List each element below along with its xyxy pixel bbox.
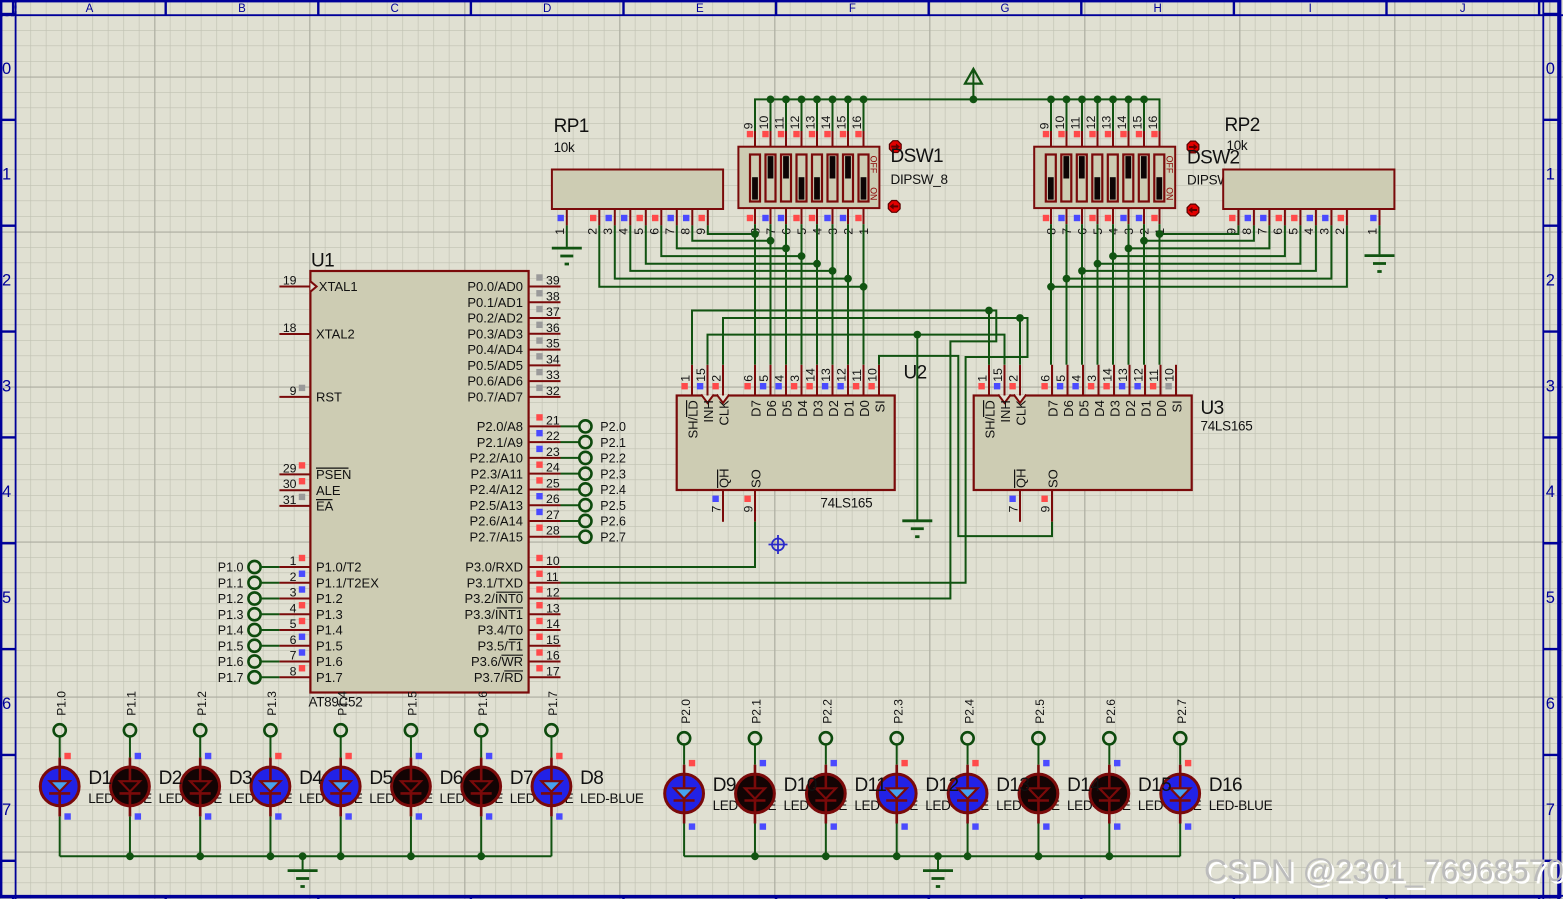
DSW2 pin 16 (top)	[1146, 116, 1160, 147]
U2 pin 5 (D6)	[757, 365, 779, 417]
svg-text:SI: SI	[1169, 400, 1184, 412]
svg-text:39: 39	[546, 274, 560, 288]
wire DSW1 pin 7 to U2 D6	[770, 224, 772, 365]
svg-text:17: 17	[546, 664, 560, 678]
svg-text:SH/LD: SH/LD	[982, 400, 997, 438]
node P1.4 terminal (U1 left)	[218, 624, 261, 638]
wire DSW2 pin 8 to U3 D7	[1050, 224, 1052, 365]
node P2.4 terminal (U1 right)	[579, 483, 626, 497]
wire DSW1 pin 1 to U2 D0	[863, 224, 865, 365]
U1 pin 26 (P2.5/A13)	[470, 492, 561, 513]
svg-text:16: 16	[546, 649, 560, 663]
wire CLK branch to U3 pin 2	[1019, 318, 1021, 365]
svg-text:4: 4	[1546, 483, 1555, 501]
node P1.1 terminal (LED row)	[124, 691, 139, 737]
U1 pin 6 (P1.5)	[279, 633, 342, 654]
U1 pin 19 (XTAL1)	[279, 274, 357, 295]
svg-text:D6: D6	[764, 400, 779, 417]
svg-text:P1.1/T2EX: P1.1/T2EX	[316, 575, 379, 590]
DSW1 pin 9 (top)	[741, 122, 755, 146]
LED D9 (on)	[665, 760, 704, 830]
node P2.2 terminal (U1 right)	[579, 452, 626, 466]
svg-text:U3: U3	[1201, 398, 1224, 419]
svg-text:P2.2: P2.2	[821, 699, 835, 724]
wire net RXD: U2 SO to U1 P3.0	[561, 522, 756, 567]
wire net U3 SO to U2 SI	[879, 356, 1052, 536]
DSW1 pin 12 (top)	[788, 116, 802, 147]
svg-text:6: 6	[1546, 695, 1555, 713]
wire U1 pin 24 to P2.3 terminal	[561, 473, 580, 475]
RP1 pin 1 (common)	[553, 209, 567, 235]
svg-text:35: 35	[546, 337, 560, 351]
svg-text:11: 11	[1147, 369, 1161, 382]
U2 pin 11 (D0)	[850, 365, 872, 417]
U1 pin 24 (P2.3/A11)	[470, 461, 560, 482]
DSW2 pin 7 (bottom)	[1058, 208, 1074, 235]
svg-text:7: 7	[1255, 228, 1269, 235]
svg-text:15: 15	[1130, 116, 1144, 130]
svg-text:11: 11	[546, 570, 559, 584]
svg-text:P2.3: P2.3	[891, 699, 905, 724]
wire U1 pin 26 to P2.5 terminal	[561, 504, 580, 506]
wire LED D5 to ground rail	[340, 816, 342, 856]
U1 pin 18 (XTAL2)	[279, 321, 354, 342]
svg-text:LED-BLUE: LED-BLUE	[580, 791, 644, 806]
wire RP1 pin 7 to DSW1 pin 6 column	[677, 225, 790, 252]
LED D3 (off)	[181, 753, 220, 820]
svg-text:E: E	[696, 3, 704, 15]
svg-text:P3.4/T0: P3.4/T0	[477, 623, 523, 638]
svg-text:P1.2: P1.2	[218, 592, 244, 606]
wire U1 pin 21 to P2.0 terminal	[561, 425, 580, 427]
node P2.2 terminal (LED row)	[820, 699, 835, 745]
svg-text:1: 1	[290, 554, 297, 568]
svg-text:D7: D7	[510, 768, 533, 789]
svg-text:ON: ON	[1164, 187, 1174, 200]
U2 pin 12 (D1)	[834, 365, 856, 417]
wire U1 pin 28 to P2.7 terminal	[561, 536, 580, 538]
svg-text:P1.7: P1.7	[546, 691, 560, 716]
svg-text:OFF: OFF	[869, 156, 879, 174]
wire P1.4 terminal to LED D5	[340, 736, 342, 758]
wire DSW1 pin 5 to U2 D4	[801, 224, 803, 365]
svg-text:6: 6	[1038, 375, 1052, 382]
wire RP1 pin 8 to DSW1 pin 7 column	[692, 225, 774, 244]
wire P1.2 terminal to U1 pin 3	[260, 598, 279, 600]
DSW2 pin 6 (bottom)	[1074, 208, 1090, 235]
svg-text:F: F	[849, 3, 856, 15]
wire LED D15 to ground rail	[1108, 824, 1110, 857]
svg-text:74LS165: 74LS165	[1201, 419, 1253, 434]
U3 clock notch	[998, 395, 1011, 404]
U1 pin 13 (P3.3/INT1)	[464, 601, 560, 622]
svg-text:P1.7: P1.7	[218, 671, 244, 685]
U3 pin 12 (D1)	[1131, 365, 1153, 417]
svg-text:8: 8	[678, 228, 692, 235]
svg-text:4: 4	[2, 483, 11, 501]
node P2.6 terminal (LED row)	[1103, 699, 1118, 745]
RP1 pin 5	[632, 209, 646, 235]
svg-text:13: 13	[819, 368, 833, 382]
svg-text:D3: D3	[1107, 400, 1122, 417]
U1 pin 31 (EA)	[279, 493, 333, 514]
U2 pin 13 (D2)	[819, 365, 841, 417]
U1 pin 29 (PSEN)	[279, 461, 351, 482]
wire LED D11 to ground rail	[825, 824, 827, 857]
U1 pin 34 (P0.5/AD5)	[467, 352, 560, 373]
svg-text:2: 2	[290, 570, 297, 584]
svg-text:D15: D15	[1138, 775, 1171, 796]
svg-text:3: 3	[2, 377, 11, 395]
power terminal VCC	[965, 69, 982, 100]
node P1.5 terminal (LED row)	[405, 691, 420, 737]
wire LED D6 to ground rail	[410, 816, 412, 856]
wire LED D16 to ground rail	[1179, 824, 1181, 857]
svg-text:P0.4/AD4: P0.4/AD4	[467, 342, 523, 357]
svg-text:29: 29	[283, 461, 297, 475]
wire RP2 pin 9 to DSW2 pin 8 column	[1156, 225, 1239, 238]
U2 pin 3 (D4)	[788, 365, 810, 417]
svg-text:PSEN: PSEN	[316, 467, 351, 482]
ground at LED row 1	[288, 869, 318, 872]
wire LED D12 to ground rail	[896, 824, 898, 857]
svg-text:3: 3	[601, 228, 615, 235]
svg-text:74LS165: 74LS165	[820, 496, 872, 511]
RP1 pin 3	[601, 209, 615, 235]
svg-text:2: 2	[1006, 375, 1020, 382]
svg-text:9: 9	[290, 384, 297, 398]
RP2 pin 7	[1255, 209, 1269, 235]
svg-text:P1.2: P1.2	[316, 591, 343, 606]
U3 pin 9 (SO)	[1039, 469, 1061, 522]
U1 pin 39 (P0.0/AD0)	[467, 274, 560, 295]
node P2.1 terminal (LED row)	[749, 699, 764, 745]
DSW2 pin 2 (bottom)	[1136, 208, 1152, 235]
DSW2 pin 12 (top)	[1084, 116, 1098, 147]
wire U1 pin 23 to P2.2 terminal	[561, 457, 580, 459]
svg-text:12: 12	[1084, 116, 1098, 130]
DSW1 pin 8 (bottom)	[747, 208, 763, 235]
wire rail to ground row 1	[302, 856, 304, 869]
DSW2 pin 4 (bottom)	[1105, 208, 1121, 235]
U1 pin 27 (P2.6/A14)	[470, 508, 561, 529]
svg-text:32: 32	[546, 384, 560, 398]
svg-text:18: 18	[283, 321, 297, 335]
U1 pin 21 (P2.0/A8)	[477, 413, 561, 434]
switch DSW1 body (DIPSW_8)	[738, 147, 879, 208]
RP2 pin 3	[1317, 209, 1331, 235]
U2 pin 9 (SO)	[742, 469, 764, 522]
svg-text:5: 5	[2, 589, 11, 607]
svg-text:SH/LD: SH/LD	[685, 400, 700, 438]
svg-text:RP1: RP1	[554, 116, 589, 137]
svg-text:P1.2: P1.2	[195, 691, 209, 716]
svg-text:SO: SO	[748, 469, 763, 488]
wire LED D2 to ground rail	[129, 816, 131, 856]
node P1.4 terminal (LED row)	[335, 691, 350, 737]
svg-text:D4: D4	[795, 400, 810, 417]
svg-text:P0.5/AD5: P0.5/AD5	[467, 358, 523, 373]
svg-text:XTAL2: XTAL2	[316, 327, 355, 342]
svg-text:34: 34	[546, 352, 560, 366]
svg-text:1: 1	[2, 166, 11, 184]
U3 pin 11 (D0)	[1147, 365, 1169, 417]
svg-text:P0.0/AD0: P0.0/AD0	[467, 279, 523, 294]
DSW1 pin 6 (bottom)	[778, 208, 794, 235]
wire ground rail LED row 2	[684, 852, 1180, 860]
svg-text:P2.1: P2.1	[750, 699, 764, 724]
U1 pin 9 (RST)	[279, 384, 342, 405]
svg-text:H: H	[1153, 3, 1161, 15]
wire P2.2 terminal to LED D11	[825, 744, 827, 765]
svg-text:P1.1: P1.1	[125, 691, 139, 716]
svg-text:4: 4	[1302, 228, 1316, 235]
U3 pin 15 (INH)	[991, 365, 1013, 423]
svg-text:28: 28	[546, 524, 560, 538]
svg-text:3: 3	[1085, 375, 1099, 382]
wire net CLK: U1 P3.1 to U2.2 and U3.2	[561, 314, 1028, 583]
U1 pin 12 (P3.2/INT0)	[464, 586, 560, 607]
svg-text:15: 15	[546, 633, 560, 647]
svg-text:1: 1	[678, 375, 692, 382]
svg-text:SI: SI	[872, 400, 887, 412]
svg-text:CLK: CLK	[716, 400, 731, 426]
DSW2 pin 10 (top)	[1053, 116, 1067, 147]
svg-text:D5: D5	[1076, 400, 1091, 417]
RP1 pin 8	[678, 209, 692, 235]
svg-text:D6: D6	[1061, 400, 1076, 417]
node P2.3 terminal (LED row)	[891, 699, 906, 745]
svg-text:D1: D1	[1138, 400, 1153, 417]
svg-text:16: 16	[850, 116, 864, 130]
svg-text:5: 5	[290, 617, 297, 631]
svg-text:36: 36	[546, 321, 560, 335]
DSW1 pin 15 (top)	[834, 116, 848, 147]
svg-text:10k: 10k	[1227, 138, 1248, 153]
svg-text:INH: INH	[701, 400, 716, 422]
svg-text:10: 10	[1053, 116, 1067, 130]
svg-text:D0: D0	[857, 400, 872, 417]
svg-text:P1.3: P1.3	[316, 607, 343, 622]
svg-text:33: 33	[546, 368, 560, 382]
wire P1.3 terminal to U1 pin 4	[260, 613, 279, 615]
svg-text:10: 10	[1162, 368, 1176, 382]
U2 pin 7 (QH)	[710, 469, 732, 522]
wire RP2 pin 3 to DSW2 pin 2 column	[1063, 225, 1332, 282]
wire U1 pin 27 to P2.6 terminal	[561, 520, 580, 522]
svg-text:D5: D5	[779, 400, 794, 417]
node P2.1 terminal (U1 right)	[579, 436, 626, 450]
wire P1.1 terminal to U1 pin 2	[260, 582, 279, 584]
wire RP2 pin 5 to DSW2 pin 4 column	[1094, 225, 1301, 267]
svg-text:U2: U2	[904, 363, 927, 384]
ground at LED row 2	[923, 869, 953, 872]
svg-text:P2.6/A14: P2.6/A14	[470, 514, 524, 529]
wire RP2 pin 8 to DSW2 pin 7 column	[1140, 225, 1254, 244]
node P2.5 terminal (LED row)	[1032, 699, 1047, 745]
U1 pin 37 (P0.2/AD2)	[467, 305, 560, 326]
svg-text:4: 4	[290, 601, 297, 615]
svg-text:D9: D9	[713, 775, 736, 796]
svg-text:P3.0/RXD: P3.0/RXD	[465, 560, 523, 575]
svg-text:5: 5	[1054, 375, 1068, 382]
svg-text:D2: D2	[159, 768, 182, 789]
node P2.0 terminal (LED row)	[678, 699, 693, 745]
wire RP1 pin 6 to DSW1 pin 5 column	[661, 225, 805, 260]
node P2.7 terminal (U1 right)	[579, 530, 626, 544]
wire DSW2 pin 4 to U3 D3	[1112, 224, 1114, 365]
svg-text:30: 30	[283, 477, 297, 491]
wire P1.5 terminal to LED D6	[410, 736, 412, 758]
switch DSW2 up button	[1187, 141, 1199, 153]
RP2 pin 5	[1286, 209, 1300, 235]
U2 pin 1 (SH/LD)	[678, 365, 700, 439]
svg-text:5: 5	[632, 228, 646, 235]
svg-text:15: 15	[991, 368, 1005, 382]
svg-text:D14: D14	[1067, 775, 1101, 796]
LED D2 (off)	[111, 753, 150, 820]
U3 pin 13 (D2)	[1116, 365, 1138, 417]
wire P2.7 terminal to LED D16	[1179, 744, 1181, 765]
wire VCC bus above DIP switches	[755, 96, 1160, 132]
svg-text:0: 0	[1546, 60, 1555, 78]
op-amp U2 body (74LS165)	[677, 396, 895, 491]
U2 pin 14 (D3)	[803, 365, 825, 417]
node P1.5 terminal (U1 left)	[218, 639, 261, 653]
svg-text:9: 9	[742, 506, 756, 513]
svg-text:D7: D7	[748, 400, 763, 417]
U2 pin 10 (SI)	[865, 365, 887, 413]
DSW2 pin 15 (top)	[1130, 116, 1144, 147]
svg-text:P1.6: P1.6	[218, 655, 244, 669]
U3 clock notch	[1014, 395, 1027, 404]
svg-text:9: 9	[1037, 122, 1051, 129]
svg-text:P1.5: P1.5	[218, 639, 244, 653]
svg-text:6: 6	[647, 228, 661, 235]
node P1.0 terminal (LED row)	[54, 691, 69, 737]
wire P1.5 terminal to U1 pin 6	[260, 645, 279, 647]
svg-text:U1: U1	[311, 251, 334, 272]
wire DSW2 pin 3 to U3 D2	[1128, 224, 1130, 365]
node P1.3 terminal (U1 left)	[218, 608, 261, 622]
svg-text:13: 13	[1116, 368, 1130, 382]
DSW2 pin 1 (bottom)	[1151, 208, 1167, 235]
svg-text:P1.0/T2: P1.0/T2	[316, 560, 362, 575]
svg-text:J: J	[1460, 3, 1466, 15]
U2 pin 4 (D5)	[772, 365, 794, 417]
wire P1.6 terminal to LED D7	[480, 736, 482, 758]
U1 pin 8 (P1.7)	[279, 664, 342, 685]
svg-text:7: 7	[1546, 801, 1555, 819]
svg-text:7: 7	[1007, 506, 1021, 513]
svg-text:RP2: RP2	[1225, 115, 1260, 136]
LED D5 (on)	[321, 753, 360, 820]
U3 pin 2 (CLK)	[1006, 365, 1028, 426]
wire LED D10 to ground rail	[754, 824, 756, 857]
wire P2.3 terminal to LED D12	[896, 744, 898, 765]
svg-text:11: 11	[772, 116, 786, 129]
svg-text:P3.3/INT1: P3.3/INT1	[464, 607, 523, 622]
LED D15 (off)	[1090, 760, 1129, 830]
DSW2 pin 14 (top)	[1115, 116, 1129, 147]
svg-text:13: 13	[803, 116, 817, 130]
svg-text:13: 13	[546, 601, 560, 615]
node P2.0 terminal (U1 right)	[579, 420, 626, 434]
svg-text:P2.1: P2.1	[600, 436, 626, 450]
wire LED D7 to ground rail	[480, 816, 482, 856]
svg-text:OFF: OFF	[1164, 156, 1174, 174]
svg-text:P2.6: P2.6	[600, 515, 626, 529]
node P1.6 terminal (LED row)	[475, 691, 490, 737]
svg-text:P2.4: P2.4	[600, 483, 626, 497]
svg-text:P3.2/INT0: P3.2/INT0	[464, 591, 523, 606]
U3 pin 10 (SI)	[1162, 365, 1184, 413]
svg-text:12: 12	[788, 116, 802, 130]
svg-text:2: 2	[1546, 272, 1555, 290]
wire P1.0 terminal to U1 pin 1	[260, 566, 279, 568]
U3 pin 6 (D7)	[1038, 365, 1060, 417]
svg-text:ALE: ALE	[316, 483, 341, 498]
svg-text:21: 21	[546, 413, 560, 427]
svg-text:14: 14	[1115, 116, 1129, 130]
wire ground rail LED row 1	[60, 852, 552, 860]
wire DSW1 pin 3 to U2 D2	[832, 224, 834, 365]
svg-text:16: 16	[1146, 116, 1160, 130]
LED D11 (off)	[806, 760, 845, 830]
svg-text:3: 3	[788, 375, 802, 382]
svg-text:3: 3	[1317, 228, 1331, 235]
svg-text:D2: D2	[826, 400, 841, 417]
svg-text:1: 1	[553, 228, 567, 235]
svg-text:P1.3: P1.3	[218, 608, 244, 622]
svg-text:11: 11	[1068, 116, 1082, 129]
svg-text:EA: EA	[316, 499, 334, 514]
wire RP2 pin 6 to DSW2 pin 5 column	[1109, 225, 1285, 260]
svg-text:RST: RST	[316, 390, 342, 405]
U1 pin 7 (P1.6)	[279, 649, 342, 670]
svg-text:D16: D16	[1209, 775, 1242, 796]
svg-text:14: 14	[819, 116, 833, 130]
DSW2 pin 3 (bottom)	[1120, 208, 1136, 235]
wire LED D9 to ground rail	[683, 824, 685, 857]
svg-text:12: 12	[1131, 368, 1145, 382]
wire P1.6 terminal to U1 pin 7	[260, 661, 279, 663]
svg-text:P3.6/WR: P3.6/WR	[471, 654, 523, 669]
svg-text:P2.4: P2.4	[962, 699, 976, 724]
node P1.3 terminal (LED row)	[264, 691, 279, 737]
wire P1.7 terminal to U1 pin 8	[260, 676, 279, 678]
wire rail to ground row 2	[937, 856, 939, 869]
svg-text:P0.1/AD1: P0.1/AD1	[467, 295, 523, 310]
wire P2.1 terminal to LED D10	[754, 744, 756, 765]
svg-text:DIPSW_8: DIPSW_8	[891, 172, 948, 187]
svg-text:D13: D13	[996, 775, 1029, 796]
svg-text:CLK: CLK	[1013, 400, 1028, 426]
LED D16 (on)	[1161, 760, 1200, 830]
DSW2 pin 8 (bottom)	[1043, 208, 1059, 235]
svg-text:QH: QH	[716, 469, 731, 489]
svg-text:1: 1	[1366, 228, 1380, 235]
wire DSW2 pin 5 to U3 D4	[1097, 224, 1099, 365]
RP1 pin 9	[694, 209, 708, 235]
U1 pin 15 (P3.5/T1)	[477, 633, 560, 654]
svg-text:38: 38	[546, 289, 560, 303]
resistor pack RP1	[552, 170, 723, 210]
U2 pin 2 (CLK)	[709, 365, 731, 426]
RP1 pin 7	[663, 209, 677, 235]
svg-text:P1.4: P1.4	[218, 624, 244, 638]
LED D7 (off)	[462, 753, 501, 820]
